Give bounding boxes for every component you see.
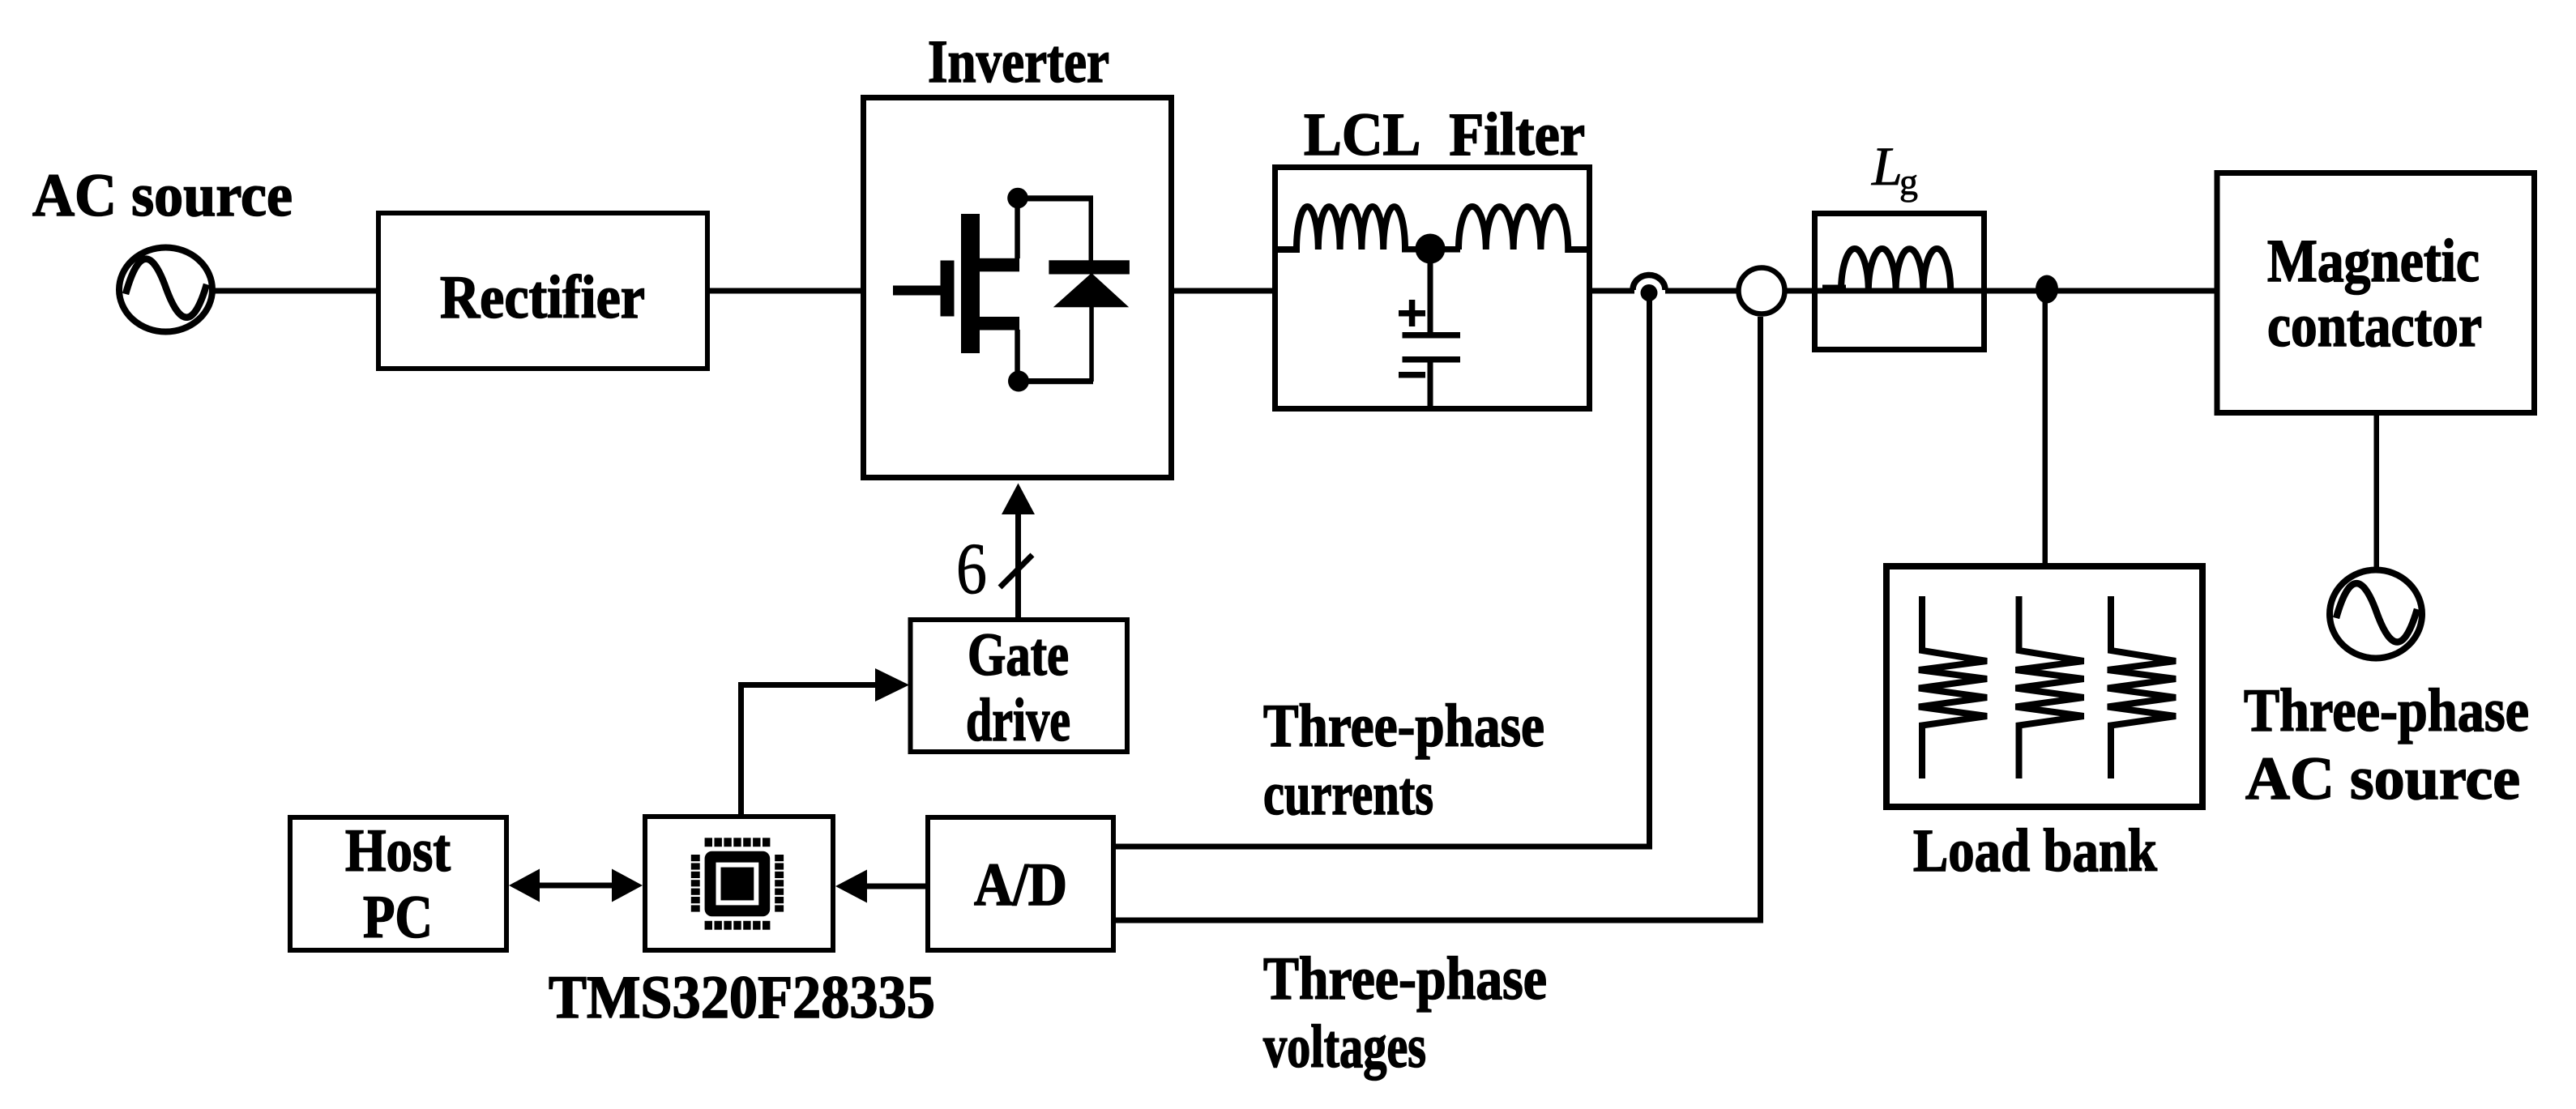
inductor Lg — [1822, 249, 1950, 293]
rectifier block — [378, 213, 707, 369]
DSP block — [645, 817, 833, 950]
gate drive block — [911, 620, 1128, 754]
load bank block — [1886, 566, 2202, 807]
inverter block — [864, 98, 1172, 478]
host PC block — [290, 817, 506, 951]
wire tap to contactor — [1665, 288, 2216, 294]
svg-text:AC source: AC source — [2245, 745, 2520, 813]
svg-text:Rectifier: Rectifier — [440, 264, 645, 331]
current sensor hop — [1633, 275, 1665, 290]
three-phase AC source label — [2244, 677, 2529, 813]
svg-text:voltages: voltages — [1263, 1013, 1426, 1081]
wire inverter to LCL filter — [1171, 288, 1275, 294]
svg-text:Host: Host — [345, 817, 451, 885]
svg-text:Three-phase: Three-phase — [1263, 945, 1547, 1013]
three-phase AC source — [2330, 570, 2422, 659]
svg-text:LCL Filter: LCL Filter — [1304, 101, 1585, 168]
three-phase voltages sense wire — [1116, 317, 1761, 920]
three-phase currents label — [1263, 693, 1544, 828]
wire gate drive to inverter (arrow) — [1002, 484, 1035, 618]
wire Lg node to load bank — [2043, 300, 2048, 569]
voltage tap node (open circle) — [1739, 268, 1785, 314]
svg-text:Three-phase: Three-phase — [2244, 677, 2529, 744]
svg-text:PC: PC — [363, 884, 433, 951]
LCL filter block — [1275, 168, 1590, 409]
wire rectifier to inverter — [707, 288, 863, 294]
wire DSP to gate drive (arrow) — [741, 668, 910, 814]
DSP chip icon — [691, 838, 784, 929]
AC source V1 — [119, 248, 212, 332]
diode D1 — [1049, 197, 1130, 382]
node current tap dot — [1641, 284, 1658, 301]
svg-text:AC source: AC source — [32, 162, 293, 229]
wire drain to diode — [1018, 195, 1093, 201]
node source dot — [1008, 371, 1029, 392]
transistor Q1 (MOSFET) — [893, 198, 1020, 382]
node after Lg — [2036, 275, 2058, 304]
resistor R3 — [2108, 596, 2176, 778]
arrow A/D to DSP — [835, 870, 925, 903]
svg-text:Inverter: Inverter — [928, 28, 1109, 96]
bidirectional arrow host PC and DSP — [509, 869, 643, 902]
node drain dot — [1007, 188, 1028, 209]
resistor R1 — [1919, 596, 1987, 778]
wire source to diode — [1019, 378, 1093, 384]
svg-text:drive: drive — [966, 687, 1070, 754]
resistor R2 — [2016, 596, 2084, 778]
A/D block — [928, 817, 1113, 950]
svg-text:Magnetic: Magnetic — [2267, 228, 2480, 295]
svg-text:Three-phase: Three-phase — [1263, 693, 1544, 760]
wire AC source to rectifier — [211, 288, 378, 294]
wire LCL to current tap — [1590, 288, 1634, 294]
inductor L2 — [1459, 207, 1592, 250]
svg-text:Gate: Gate — [968, 621, 1069, 689]
slash mark — [1000, 555, 1032, 587]
magnetic contactor block — [2217, 173, 2535, 413]
svg-text:contactor: contactor — [2267, 292, 2482, 360]
three-phase currents sense wire — [1116, 297, 1650, 847]
node LCL junction — [1402, 234, 1460, 264]
svg-text:A/D: A/D — [974, 851, 1067, 919]
capacitor C1 — [1399, 259, 1460, 412]
three-phase voltages label — [1263, 945, 1547, 1081]
wire contactor to three-phase source — [2374, 416, 2380, 568]
svg-text:currents: currents — [1263, 761, 1433, 828]
inductor L1 — [1272, 207, 1405, 250]
inductor Lg block — [1815, 214, 1984, 350]
svg-text:TMS320F28335: TMS320F28335 — [549, 964, 935, 1031]
svg-text:6: 6 — [956, 529, 987, 609]
svg-text:L: L — [1871, 135, 1903, 197]
svg-text:g: g — [1899, 161, 1918, 203]
svg-text:Load bank: Load bank — [1913, 817, 2157, 885]
